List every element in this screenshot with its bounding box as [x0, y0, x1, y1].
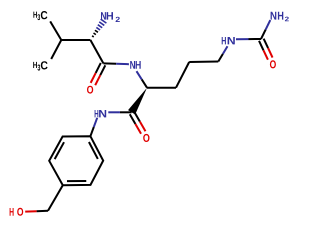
wire: bond N(anilide)-C(ring ipso) — [90, 118, 97, 136]
label O (urea carbonyl) — [270, 60, 276, 68]
wire: bond N(urea)-C(urea) — [236, 38, 261, 40]
hashed wedge C(alpha,Val)-NH2 — [92, 19, 106, 37]
wire: bond CH-C(alpha,Val) — [61, 39, 90, 41]
wire: bond H3C(upper)-CH — [50, 21, 61, 40]
double bond C=O (Val) — [91, 63, 106, 85]
wire: bond CH2a-CH2b — [176, 62, 189, 88]
label HN (urea) — [222, 37, 235, 44]
label O (Val carbonyl) — [87, 86, 93, 94]
benzene inner double-bond line (bottom) — [67, 180, 86, 182]
benzene inner double-bond line (upper-right) — [89, 142, 98, 159]
bold wedge C(alpha,Cit)-C(=O) — [128, 88, 147, 115]
label HO (benzyl alcohol) — [10, 208, 24, 216]
label HN (anilide) — [95, 110, 107, 117]
wire: bond C(alpha,Cit)-CH2a — [147, 87, 176, 89]
label H3C (lower methyl) — [33, 61, 47, 70]
wire: bond CH2c-N(urea) — [218, 46, 227, 61]
wire: bond C(alpha,Val)-C(=O) — [90, 40, 103, 63]
label NH (Val-Cit amide) — [130, 61, 141, 69]
label H3C (upper methyl) — [33, 11, 47, 20]
benzene ring outline — [49, 136, 103, 185]
wire: bond C(ring)-CH2 — [48, 185, 63, 211]
wire: bond N-C(alpha,Cit) — [137, 71, 148, 88]
wire: bond C(urea)-NH2 — [261, 20, 270, 39]
double bond C=O (urea) — [259, 39, 273, 60]
double bond C=O (Cit amide) — [130, 112, 146, 134]
wire: bond C(=O)-N (anilide) — [108, 111, 131, 113]
wire: bond C(=O)-N (Val amide) — [103, 62, 128, 65]
benzene inner double-bond line (upper-left) — [55, 142, 64, 159]
label O (Cit amide carbonyl) — [143, 134, 149, 142]
wire: bond CH2-O(H) — [25, 210, 48, 213]
label NH2 (urea) — [271, 12, 289, 21]
wire: bond CH2b-CH2c — [189, 61, 218, 64]
label NH2 (Val amine) — [101, 12, 120, 22]
wire: bond H3C(lower)-CH — [51, 40, 61, 59]
